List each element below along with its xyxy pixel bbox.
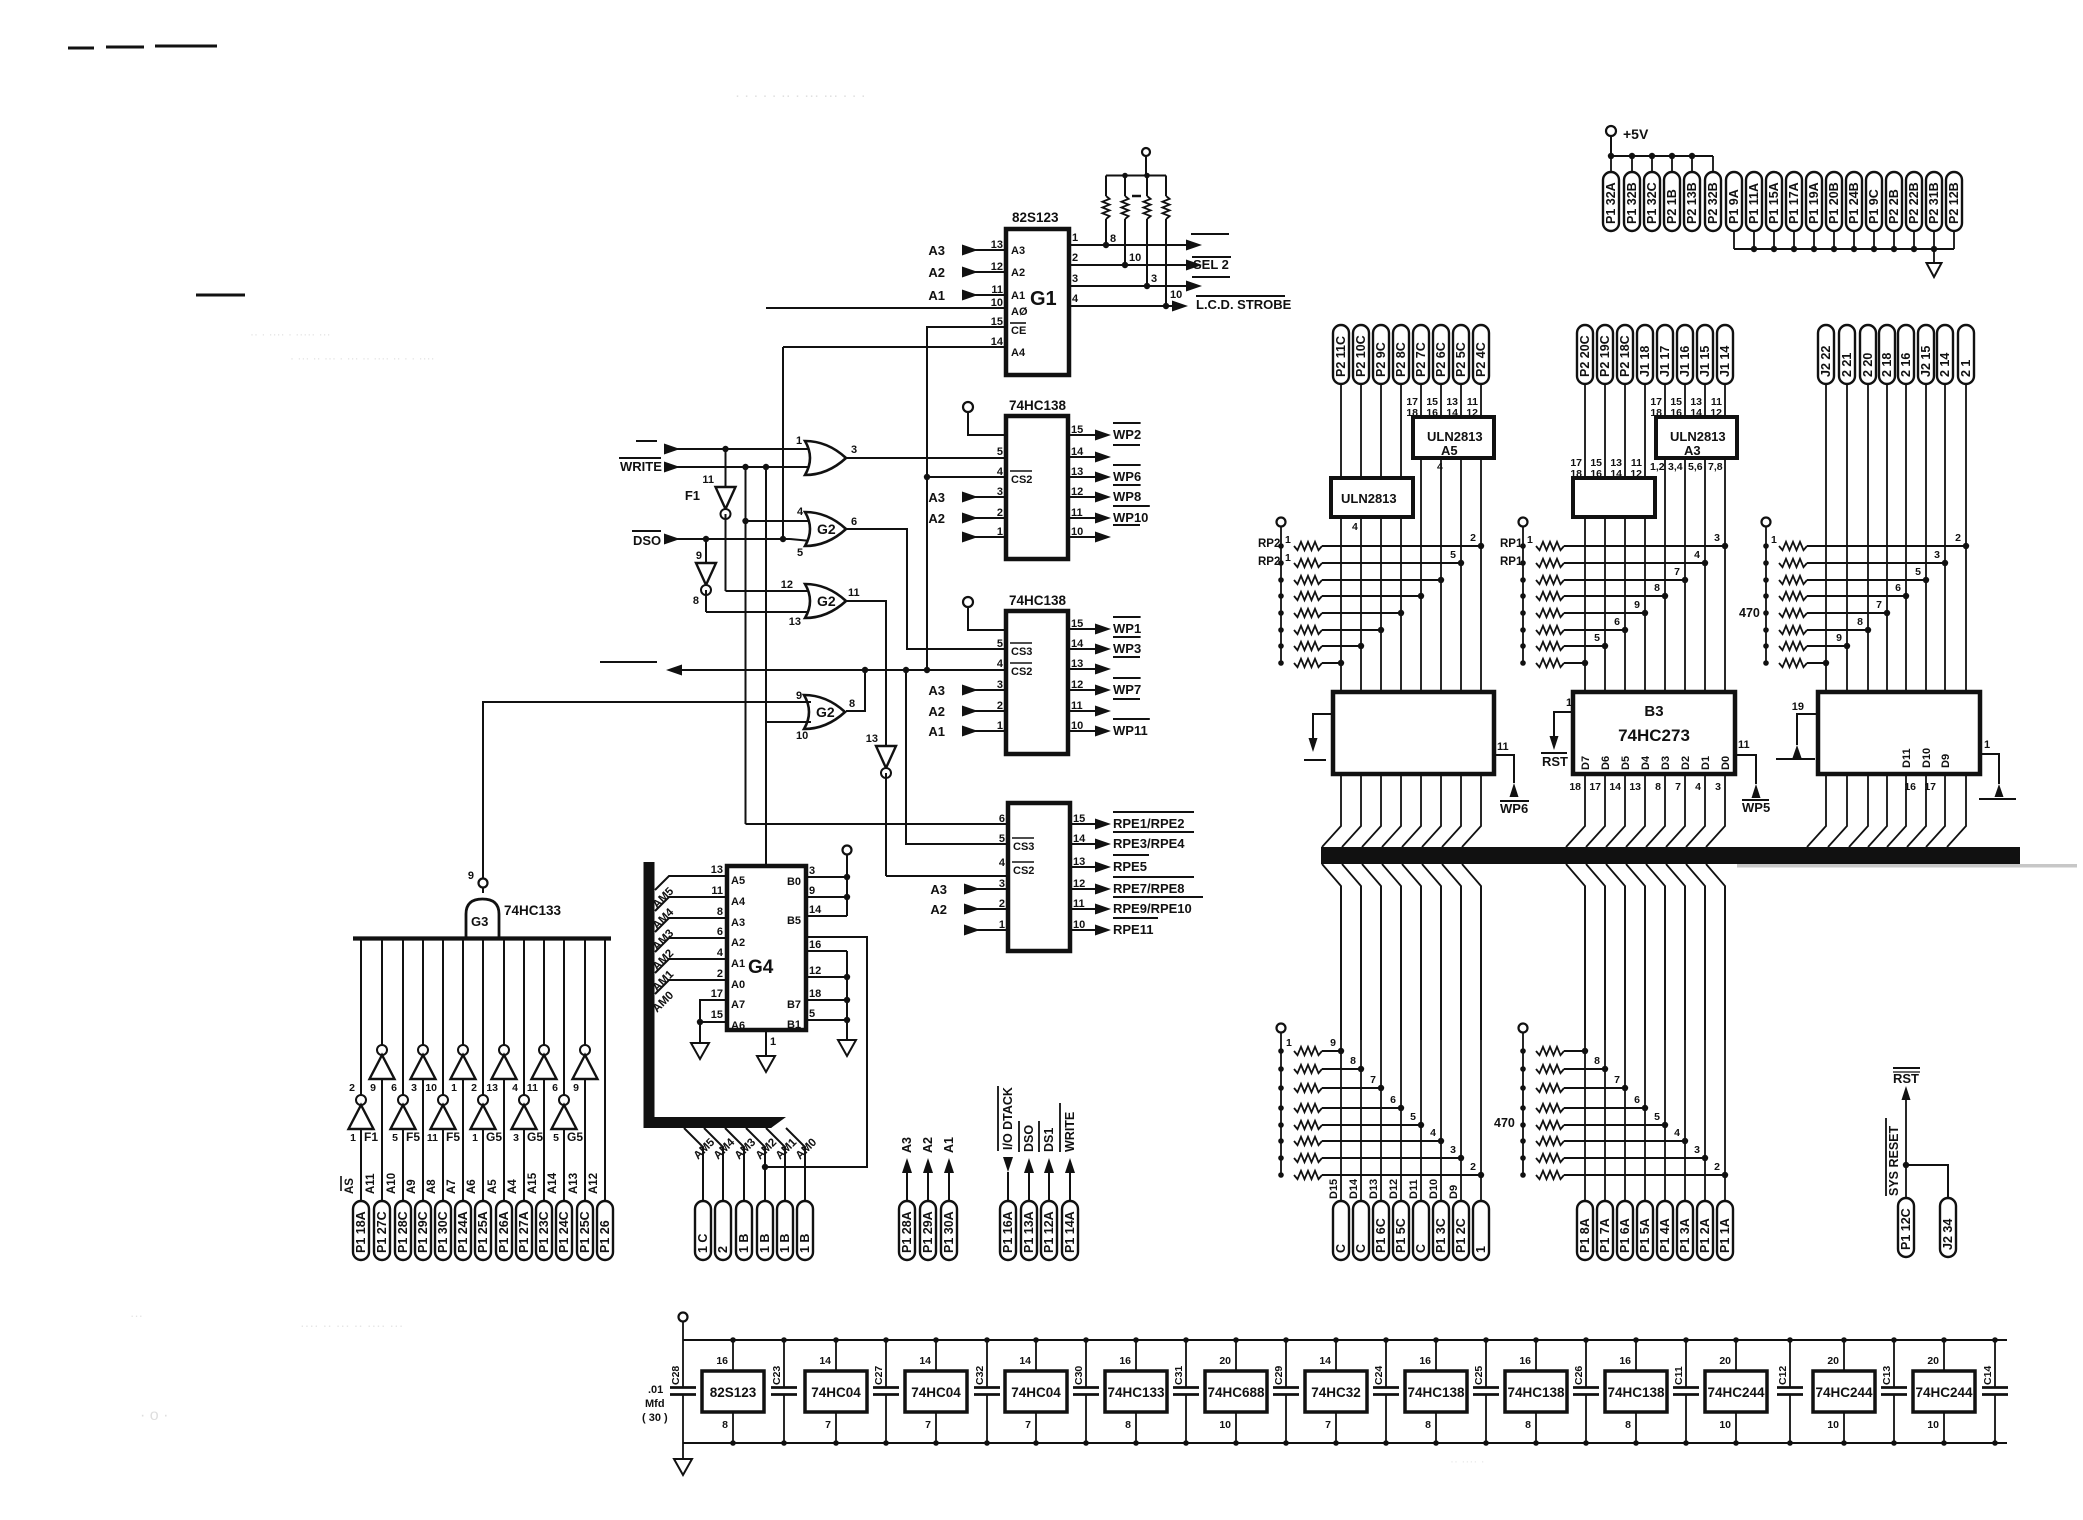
svg-text:5: 5 (997, 638, 1003, 650)
svg-text:8: 8 (1654, 582, 1660, 594)
svg-text:P1 5A: P1 5A (1638, 1218, 1652, 1253)
or gate U-A (pins 1,2,3) (805, 441, 846, 475)
svg-text:1 B: 1 B (737, 1234, 751, 1253)
svg-text:16: 16 (1419, 1355, 1431, 1367)
svg-text:20: 20 (1719, 1355, 1731, 1367)
IC G1 82S123 (1006, 229, 1069, 375)
capacitor C14 (1994, 1340, 1996, 1387)
connector 2 21 (1839, 325, 1855, 384)
capacitor C13 (1893, 1340, 1895, 1387)
ground symbol bottom left (682, 1443, 684, 1459)
svg-text:14: 14 (1609, 781, 1621, 793)
svg-text:3: 3 (809, 865, 815, 877)
RP1 resistor pack (1519, 518, 1528, 527)
svg-text:74HC04: 74HC04 (811, 1385, 861, 1400)
svg-text:P1 16A: P1 16A (1001, 1211, 1015, 1253)
svg-text:4: 4 (997, 658, 1004, 670)
svg-text:WP1: WP1 (1113, 621, 1141, 636)
svg-text:1: 1 (1285, 552, 1291, 564)
data bus (thick) (1321, 847, 2020, 864)
svg-text:8: 8 (1110, 233, 1116, 245)
svg-text:9: 9 (1836, 632, 1842, 644)
svg-text:2 20: 2 20 (1861, 353, 1875, 377)
svg-text:16: 16 (1426, 407, 1438, 419)
svg-text:F5: F5 (406, 1130, 420, 1144)
svg-text:13: 13 (486, 1082, 498, 1094)
svg-text:A1: A1 (928, 724, 945, 739)
ULN2813 A3 (1584, 384, 1586, 478)
svg-text:11: 11 (427, 1132, 438, 1144)
svg-text:P1 18A: P1 18A (354, 1211, 368, 1253)
svg-text:P1 6A: P1 6A (1618, 1218, 1632, 1253)
ground symbol (1933, 249, 1935, 263)
svg-text:16: 16 (1119, 1355, 1131, 1367)
svg-text:6: 6 (391, 1082, 397, 1094)
svg-text:A5: A5 (487, 1179, 499, 1194)
svg-text:10: 10 (1129, 252, 1141, 264)
svg-text:F5: F5 (446, 1130, 460, 1144)
svg-text:9: 9 (1634, 599, 1640, 611)
svg-text:2 18: 2 18 (1880, 353, 1894, 377)
NAND G3 74HC133 (479, 879, 488, 888)
svg-text:2 1: 2 1 (1959, 360, 1973, 377)
svg-text:P1 14A: P1 14A (1063, 1211, 1077, 1253)
connector P1 20B (1826, 172, 1842, 231)
ULN2813 A5 (1340, 384, 1342, 478)
capacitor C24 (1385, 1340, 1387, 1387)
connector P2 22B (1906, 172, 1922, 231)
vertical to chip3 CS3 (906, 670, 1008, 844)
connector J1 16 (1677, 325, 1693, 384)
svg-text:· ··· ·· ··· · ··· ·· ···· ··: · ··· ·· ··· · ··· ·· ···· ·· · · ···· (290, 351, 435, 365)
svg-text:A3: A3 (928, 243, 945, 258)
svg-text:D6: D6 (1600, 756, 1612, 770)
svg-text:11: 11 (711, 885, 723, 897)
vertical DSO to A4 pin of G1 (780, 536, 786, 542)
svg-text:16: 16 (1590, 468, 1602, 480)
svg-text:14: 14 (1019, 1355, 1031, 1367)
svg-text:2: 2 (1714, 1161, 1720, 1173)
svg-text:A3: A3 (731, 917, 745, 929)
svg-text:10: 10 (1827, 1419, 1839, 1431)
svg-text:14: 14 (819, 1355, 831, 1367)
svg-text:9: 9 (370, 1082, 376, 1094)
svg-text:19: 19 (1792, 701, 1804, 713)
connector P1 11A (1746, 172, 1762, 231)
svg-text:J2 22: J2 22 (1819, 346, 1833, 377)
svg-text:···· ·· ··· ·· ···· ···: ···· ·· ··· ·· ···· ··· (300, 1317, 403, 1333)
svg-text:3: 3 (1715, 781, 1721, 793)
svg-text:A14: A14 (547, 1172, 559, 1194)
address line A14 (563, 940, 565, 1095)
connector P2 11C (1333, 325, 1349, 384)
lines ULN outputs down to latch A4 (1340, 517, 1342, 692)
svg-text:5: 5 (999, 833, 1005, 845)
svg-text:1: 1 (796, 435, 802, 447)
svg-text:9: 9 (809, 885, 815, 897)
connector 2 14 (1937, 325, 1953, 384)
svg-text:A1: A1 (928, 288, 945, 303)
svg-text:P1 13A: P1 13A (1022, 1211, 1036, 1253)
svg-text:20: 20 (1219, 1355, 1231, 1367)
capacitor C23 (783, 1340, 785, 1387)
svg-text:J1 14: J1 14 (1718, 346, 1732, 377)
AM3 stub (655, 918, 727, 932)
svg-text:CS2: CS2 (1013, 865, 1034, 877)
svg-text:RP1: RP1 (1500, 538, 1523, 550)
capacitor C11 (1685, 1340, 1687, 1387)
or gate G2 a (4,5->6) (805, 512, 846, 546)
svg-text:RST: RST (1893, 1071, 1919, 1086)
svg-text:P1 26A: P1 26A (497, 1211, 511, 1253)
AM3 output stub (725, 1128, 744, 1201)
input DSO (632, 530, 661, 532)
svg-text:1: 1 (770, 1036, 776, 1048)
svg-text:( 30 ): ( 30 ) (642, 1412, 668, 1424)
capacitor C32 (986, 1340, 988, 1387)
svg-text:82S123: 82S123 (1012, 210, 1059, 225)
svg-text:A2: A2 (731, 937, 745, 949)
svg-text:14: 14 (1690, 407, 1702, 419)
svg-text:4: 4 (1072, 293, 1079, 305)
bypass chip 74HC04 (905, 1371, 967, 1412)
svg-text:AS: AS (344, 1178, 356, 1194)
svg-text:C23: C23 (771, 1366, 783, 1385)
svg-text:13: 13 (1629, 781, 1641, 793)
or gate G2 b (12,13->11) (805, 584, 846, 618)
connector J1 15 (1697, 325, 1713, 384)
svg-text:AØ: AØ (1011, 306, 1028, 318)
svg-text:P2 2B: P2 2B (1887, 189, 1901, 224)
+5V power terminal (bottom) (679, 1313, 688, 1322)
pullup resistor network above G1 (1142, 148, 1150, 156)
svg-text:P1 28C: P1 28C (396, 1211, 410, 1253)
bypass chip 74HC244 (1705, 1371, 1767, 1412)
svg-text:16: 16 (809, 939, 821, 951)
svg-text:1: 1 (1566, 697, 1572, 709)
junction dots on input lines (722, 446, 728, 452)
svg-text:16: 16 (1519, 1355, 1531, 1367)
svg-text:A3: A3 (930, 882, 947, 897)
svg-text:ULN2813: ULN2813 (1670, 429, 1726, 444)
svg-text:· o ·: · o · (140, 1407, 168, 1424)
connector P2 20C (1577, 325, 1593, 384)
svg-text:12: 12 (1630, 468, 1642, 480)
svg-text:A12: A12 (588, 1173, 600, 1194)
svg-text:74HC138: 74HC138 (1009, 593, 1067, 608)
svg-text:1: 1 (1771, 534, 1777, 546)
svg-text:P2 1B: P2 1B (1665, 189, 1679, 224)
address line A12 (604, 940, 606, 1201)
connector P2 5C (1453, 325, 1469, 384)
RP2 resistor pack (1277, 518, 1286, 527)
connector P2 10C (1353, 325, 1369, 384)
svg-text:D9: D9 (1448, 1185, 1460, 1199)
connector P2 6C (1433, 325, 1449, 384)
svg-text:CS3: CS3 (1013, 841, 1034, 853)
G3 wire and G2c pin9 line (483, 702, 811, 893)
470 ladder (bottom right) (1519, 1024, 1528, 1033)
svg-text:G2: G2 (816, 704, 835, 720)
svg-text:J1 16: J1 16 (1678, 346, 1692, 377)
svg-text:74HC133: 74HC133 (504, 903, 562, 918)
svg-text:P1 27A: P1 27A (517, 1211, 531, 1253)
svg-text:1: 1 (1285, 534, 1291, 546)
svg-text:G5: G5 (527, 1130, 543, 1144)
svg-text:G5: G5 (567, 1130, 583, 1144)
svg-text:B7: B7 (787, 999, 801, 1011)
svg-text:WP11: WP11 (1113, 723, 1148, 738)
svg-text:5: 5 (392, 1132, 398, 1144)
svg-text:P1 15A: P1 15A (1767, 182, 1781, 224)
svg-text:74HC688: 74HC688 (1207, 1385, 1265, 1400)
IC 74HC138 U2 (1006, 416, 1068, 559)
svg-text:14: 14 (809, 904, 822, 916)
svg-text:Mfd: Mfd (645, 1398, 665, 1410)
svg-text:2 14: 2 14 (1938, 353, 1952, 377)
svg-text:5: 5 (1915, 566, 1921, 578)
latch A4 (74HC273, label faded) (1333, 692, 1494, 774)
inverter F1 (725, 449, 727, 487)
D15 ladder resistor pack (1277, 1024, 1286, 1033)
svg-text:RP2: RP2 (1258, 538, 1280, 550)
capacitor C29 (1285, 1340, 1287, 1387)
svg-text:P1 8A: P1 8A (1578, 1218, 1592, 1253)
svg-text:15: 15 (711, 1009, 723, 1021)
bottom GND rail (683, 1442, 2007, 1444)
svg-text:WRITE: WRITE (1063, 1112, 1077, 1152)
bypass chip 74HC244 (1913, 1371, 1975, 1412)
latch B3 74HC273 (1573, 692, 1735, 774)
svg-text:P1 27C: P1 27C (375, 1211, 389, 1253)
svg-text:9: 9 (468, 870, 474, 882)
connector P2 19C (1597, 325, 1613, 384)
svg-text:CS2: CS2 (1011, 474, 1032, 486)
svg-text:4: 4 (1695, 781, 1701, 793)
svg-text:10: 10 (1927, 1419, 1939, 1431)
svg-text:12: 12 (809, 965, 821, 977)
svg-text:1: 1 (1474, 1246, 1488, 1253)
bypass chip 74HC688 (1205, 1371, 1267, 1412)
AM4 output stub (704, 1128, 723, 1201)
bus entry wires from latches (1322, 774, 1341, 847)
capacitor C12 (1789, 1340, 1791, 1387)
svg-text:1 B: 1 B (798, 1234, 812, 1253)
svg-text:B5: B5 (787, 915, 801, 927)
svg-text:18: 18 (1650, 407, 1662, 419)
svg-text:B0: B0 (787, 876, 801, 888)
svg-text:J1 18: J1 18 (1638, 346, 1652, 377)
svg-text:A1: A1 (1011, 290, 1025, 302)
svg-text:·· ···· ·: ·· ···· · (1450, 1454, 1485, 1468)
CS2 vertical to chip1 pin4 and G1 CE (926, 327, 928, 670)
svg-text:A4: A4 (731, 896, 746, 908)
connector 2 1 (1958, 325, 1974, 384)
connector P2 8C (1393, 325, 1409, 384)
svg-text:14: 14 (1319, 1355, 1331, 1367)
svg-text:14: 14 (1446, 407, 1458, 419)
svg-text:P1 24A: P1 24A (456, 1211, 470, 1253)
svg-text:C27: C27 (873, 1366, 885, 1385)
svg-text:···: ··· (130, 1308, 143, 1323)
svg-text:C24: C24 (1373, 1366, 1385, 1385)
inverter on DSO (9->8) (703, 536, 709, 542)
G2c output 8 up to CS2 line (846, 670, 865, 711)
svg-text:4: 4 (1694, 549, 1700, 561)
svg-text:ULN2813: ULN2813 (1341, 491, 1397, 506)
C28 cap (682, 1340, 684, 1387)
svg-text:P1 25A: P1 25A (476, 1211, 490, 1253)
svg-text:P2 32B: P2 32B (1706, 182, 1720, 224)
connector P2 32B (1712, 156, 1714, 172)
svg-text:A3: A3 (1011, 245, 1025, 257)
svg-text:74HC244: 74HC244 (1815, 1385, 1873, 1400)
bypass chip 74HC04 (1005, 1371, 1067, 1412)
svg-text:11: 11 (848, 587, 860, 599)
svg-text:J2 34: J2 34 (1941, 1219, 1955, 1250)
svg-text:A10: A10 (386, 1173, 398, 1194)
svg-text:6: 6 (999, 813, 1005, 825)
svg-text:C: C (1334, 1244, 1348, 1253)
svg-text:2 21: 2 21 (1840, 353, 1854, 377)
svg-text:WP5: WP5 (1742, 800, 1770, 815)
svg-text:D10: D10 (1428, 1179, 1440, 1199)
svg-text:6: 6 (1634, 1094, 1640, 1106)
svg-text:P2 4C: P2 4C (1474, 342, 1488, 377)
svg-text:C30: C30 (1073, 1366, 1085, 1385)
svg-text:WP6: WP6 (1113, 469, 1141, 484)
svg-text:4: 4 (997, 466, 1004, 478)
svg-text:C32: C32 (974, 1366, 986, 1385)
svg-text:C29: C29 (1273, 1366, 1285, 1385)
svg-text:9: 9 (573, 1082, 579, 1094)
bypass chip 74HC138 (1405, 1371, 1467, 1412)
svg-text:1: 1 (1072, 232, 1078, 244)
svg-text:A5: A5 (731, 875, 745, 887)
svg-text:DS1: DS1 (1042, 1128, 1056, 1152)
svg-text:1: 1 (472, 1132, 478, 1144)
svg-text:5: 5 (1594, 632, 1600, 644)
A4 pin1 reset arrow (1313, 714, 1333, 739)
long CS2 horizontal line with left arrow (666, 665, 682, 676)
svg-text:F1: F1 (364, 1130, 378, 1144)
svg-text:D7: D7 (1580, 756, 1592, 770)
svg-text:5,6: 5,6 (1688, 461, 1703, 473)
svg-text:G5: G5 (486, 1130, 502, 1144)
ULN2813 (RP1 bank) (1573, 478, 1655, 517)
G4 A7/A6 to ground (700, 1000, 727, 1022)
svg-text:P1 1A: P1 1A (1718, 1218, 1732, 1253)
wire G1 A0 from WRITE (766, 307, 1006, 309)
svg-text:7: 7 (1025, 1419, 1031, 1431)
bypass chip 74HC138 (1605, 1371, 1667, 1412)
svg-text:2: 2 (717, 968, 723, 980)
AM5 output stub (684, 1128, 703, 1201)
svg-text:5: 5 (553, 1132, 559, 1144)
svg-text:8: 8 (693, 595, 699, 607)
GND rail (1734, 248, 1954, 250)
svg-text:P1 4A: P1 4A (1658, 1218, 1672, 1253)
svg-text:P1 3A: P1 3A (1678, 1218, 1692, 1253)
svg-text:I/O DTACK: I/O DTACK (1001, 1087, 1015, 1150)
connector P2 9C (1373, 325, 1389, 384)
svg-text:20: 20 (1827, 1355, 1839, 1367)
svg-text:8: 8 (717, 906, 723, 918)
svg-text:WP10: WP10 (1113, 510, 1148, 525)
svg-text:ULN2813: ULN2813 (1427, 429, 1483, 444)
svg-text:16: 16 (1670, 407, 1682, 419)
svg-text:G1: G1 (1030, 288, 1057, 310)
connector P2 18C (1617, 325, 1633, 384)
svg-text:82S123: 82S123 (710, 1385, 757, 1400)
svg-text:P2 19C: P2 19C (1598, 335, 1612, 377)
svg-text:.01: .01 (648, 1384, 663, 1396)
AM2 output stub (746, 1128, 765, 1201)
svg-text:3: 3 (411, 1082, 417, 1094)
svg-text:7: 7 (1675, 781, 1681, 793)
AM address bus (thick L) (644, 862, 655, 1128)
svg-text:16: 16 (1619, 1355, 1631, 1367)
svg-text:P1 25C: P1 25C (578, 1211, 592, 1253)
svg-text:P1 5C: P1 5C (1394, 1218, 1408, 1253)
svg-text:470: 470 (1494, 1116, 1515, 1130)
svg-text:6: 6 (851, 516, 857, 528)
svg-text:20: 20 (1927, 1355, 1939, 1367)
connector P2 2B (1886, 172, 1902, 231)
svg-text:A13: A13 (568, 1173, 580, 1194)
svg-text:P1 9C: P1 9C (1867, 189, 1881, 224)
svg-text:A1: A1 (942, 1137, 956, 1153)
svg-text:6: 6 (1614, 616, 1620, 628)
vertical A0 net down to G4 (765, 467, 767, 866)
svg-text:P1 9A: P1 9A (1727, 189, 1741, 224)
svg-text:P1 24C: P1 24C (557, 1211, 571, 1253)
svg-text:10: 10 (1719, 1419, 1731, 1431)
connector P1 15A (1766, 172, 1782, 231)
svg-text:4: 4 (717, 947, 724, 959)
G4 B0/B5 pullup: circle terminal (843, 846, 852, 855)
connector P2 12B (1946, 172, 1962, 231)
svg-text:D9: D9 (1940, 754, 1952, 768)
address line A11 (381, 940, 383, 1045)
svg-text:C26: C26 (1573, 1366, 1585, 1385)
svg-text:C: C (1354, 1244, 1368, 1253)
svg-text:3,4: 3,4 (1668, 461, 1683, 473)
+5V rail (1611, 155, 1713, 157)
svg-text:2: 2 (1470, 1161, 1476, 1173)
svg-text:P1 19A: P1 19A (1807, 182, 1821, 224)
svg-text:A9: A9 (406, 1179, 418, 1194)
long line to chip3 pin6 (746, 823, 1009, 825)
G2c pin10 stub (766, 721, 811, 723)
svg-text:+5V: +5V (1623, 126, 1649, 142)
svg-text:WP2: WP2 (1113, 427, 1141, 442)
svg-text:6: 6 (717, 926, 723, 938)
470 resistor pack (J2 bank) (1762, 518, 1771, 527)
AM5 stub (655, 876, 727, 890)
svg-text:18: 18 (1570, 468, 1582, 480)
svg-text:P1 32B: P1 32B (1625, 182, 1639, 224)
svg-text:4: 4 (512, 1082, 518, 1094)
connector P1 24B (1846, 172, 1862, 231)
connector P2 31B (1926, 172, 1942, 231)
dash mid-left (196, 294, 245, 297)
svg-text:8: 8 (849, 698, 855, 710)
svg-text:4: 4 (1437, 461, 1443, 473)
svg-text:74HC244: 74HC244 (1707, 1385, 1765, 1400)
svg-text:P2 20C: P2 20C (1578, 335, 1592, 377)
RST / SYS RESET (1893, 1067, 1920, 1069)
